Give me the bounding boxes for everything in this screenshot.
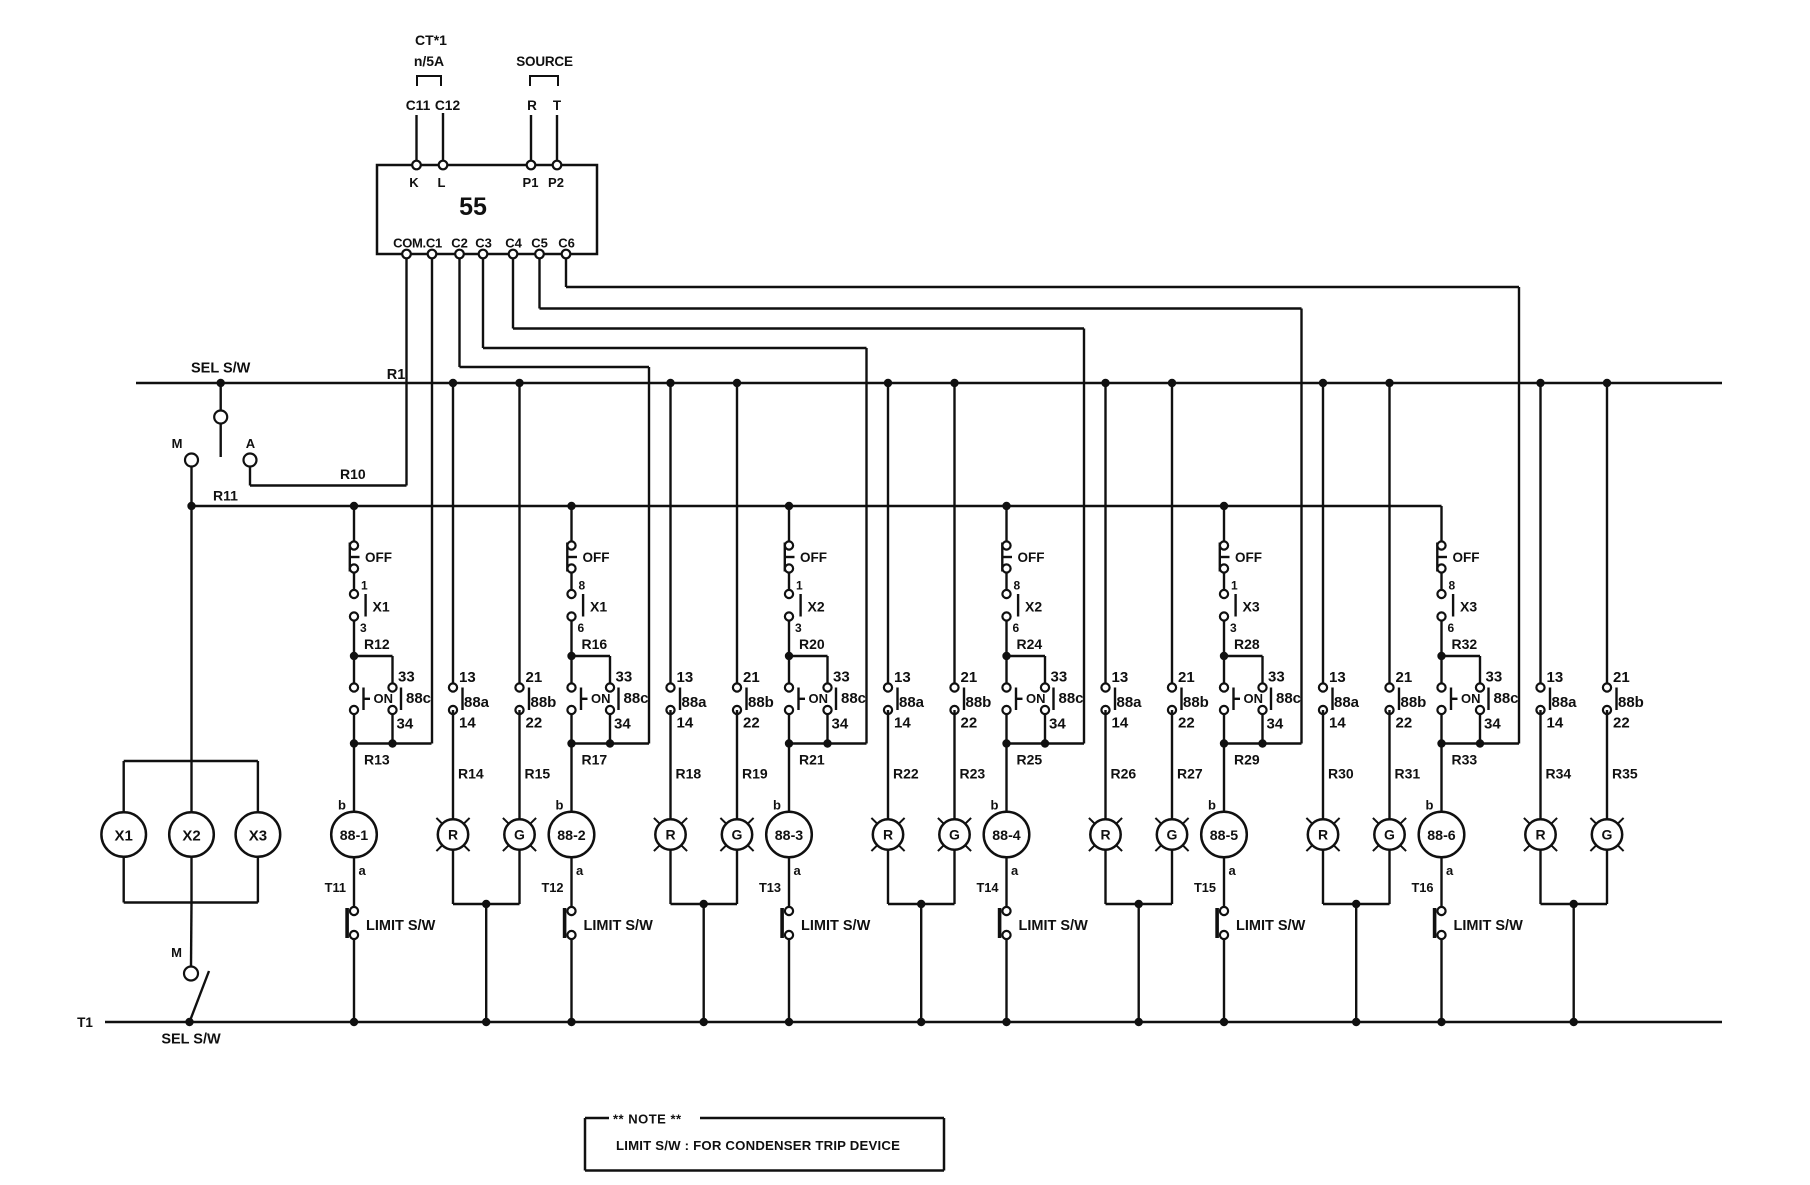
svg-text:88c: 88c bbox=[1276, 690, 1301, 707]
wire coil to limit switch (group 3) bbox=[788, 857, 790, 907]
svg-text:13: 13 bbox=[1547, 669, 1564, 686]
svg-text:LIMIT S/W: LIMIT S/W bbox=[1236, 918, 1306, 934]
svg-text:33: 33 bbox=[833, 669, 850, 686]
svg-text:LIMIT S/W: LIMIT S/W bbox=[1019, 918, 1089, 934]
parallel branch wires (group 2) bbox=[572, 656, 650, 744]
wire OFF to X1 contact bbox=[353, 573, 355, 591]
label R21 bbox=[799, 752, 825, 768]
SOURCE bracket bbox=[530, 76, 558, 86]
wire coil to limit switch (group 2) bbox=[570, 857, 572, 907]
lamp G R15 bbox=[503, 818, 536, 851]
svg-text:X1: X1 bbox=[115, 828, 133, 845]
terminal b (group 1) bbox=[338, 798, 346, 813]
wire R to P1 bbox=[530, 115, 532, 161]
terminal a (group 5) bbox=[1229, 863, 1237, 878]
wire 22 to lamp G (group 3) bbox=[953, 710, 955, 820]
wire M down bbox=[190, 467, 192, 762]
wire OFF to X2 contact bbox=[788, 573, 790, 591]
svg-text:22: 22 bbox=[1178, 715, 1195, 732]
svg-text:R30: R30 bbox=[1328, 766, 1354, 782]
svg-text:R: R bbox=[527, 98, 537, 113]
svg-text:R22: R22 bbox=[893, 766, 919, 782]
label T16 bbox=[1411, 880, 1433, 895]
label R30 bbox=[1328, 766, 1354, 782]
svg-text:88c: 88c bbox=[624, 690, 649, 707]
wire lamps R G join to T1 (group 1) bbox=[453, 850, 520, 1026]
svg-text:88c: 88c bbox=[1059, 690, 1084, 707]
svg-text:R26: R26 bbox=[1111, 766, 1137, 782]
label R20 bbox=[799, 636, 825, 652]
pushbutton ON (group 3) bbox=[785, 683, 828, 714]
wire OFF to X3 contact bbox=[1440, 573, 1442, 591]
label R16 bbox=[582, 636, 608, 652]
wire to node R32 bbox=[1440, 621, 1442, 657]
pushbutton ON (group 4) bbox=[1002, 683, 1045, 714]
svg-text:14: 14 bbox=[894, 715, 911, 732]
svg-text:R15: R15 bbox=[525, 766, 551, 782]
wire C6 routing bbox=[566, 258, 1519, 744]
svg-text:33: 33 bbox=[616, 669, 633, 686]
svg-text:22: 22 bbox=[526, 715, 543, 732]
svg-text:a: a bbox=[359, 863, 367, 878]
label R34 bbox=[1546, 766, 1572, 782]
svg-text:M: M bbox=[172, 436, 183, 451]
contact 88b 21-22 (R27) bbox=[1168, 379, 1209, 732]
wire to node R12 bbox=[353, 621, 355, 657]
svg-text:X2: X2 bbox=[182, 828, 200, 845]
contact 88a 13-14 (R26) bbox=[1101, 379, 1142, 732]
svg-text:T11: T11 bbox=[325, 880, 346, 895]
terminal C1 bbox=[428, 250, 437, 259]
wire R10 bbox=[250, 467, 407, 486]
contact 88b 21-22 (R35) bbox=[1603, 379, 1644, 732]
terminal P1 bbox=[523, 161, 539, 190]
svg-text:R16: R16 bbox=[582, 636, 608, 652]
label R10 bbox=[340, 466, 366, 482]
wire C3 routing bbox=[483, 258, 867, 744]
contact X2 1-3 (group 3) bbox=[785, 579, 825, 636]
wire C5 routing bbox=[540, 258, 1302, 744]
wire to coil 88-1 bbox=[353, 744, 355, 813]
node R24 bbox=[1002, 652, 1010, 660]
wire limit switch to T1 (group 4) bbox=[1002, 939, 1010, 1026]
label R26 bbox=[1111, 766, 1137, 782]
svg-text:C12: C12 bbox=[435, 98, 461, 113]
svg-text:88b: 88b bbox=[748, 694, 774, 711]
svg-text:33: 33 bbox=[1268, 669, 1285, 686]
svg-text:21: 21 bbox=[1613, 669, 1630, 686]
contact 88a 13-14 (R18) bbox=[666, 379, 707, 732]
wire 14 to lamp R (group 1) bbox=[452, 710, 454, 820]
lamp X1 bbox=[101, 812, 146, 857]
wire lamps R G join to T1 (group 2) bbox=[671, 850, 738, 1026]
svg-text:R29: R29 bbox=[1234, 752, 1260, 768]
wire 14 to lamp R (group 2) bbox=[669, 710, 671, 820]
wire coil to limit switch (group 4) bbox=[1005, 857, 1007, 907]
svg-text:34: 34 bbox=[1484, 716, 1501, 733]
svg-text:R10: R10 bbox=[340, 466, 366, 482]
svg-text:R21: R21 bbox=[799, 752, 825, 768]
svg-text:88b: 88b bbox=[1183, 694, 1209, 711]
wire limit switch to T1 (group 3) bbox=[785, 939, 793, 1026]
wire COM down bbox=[405, 258, 407, 486]
svg-text:SOURCE: SOURCE bbox=[516, 54, 573, 69]
contact 88c 33-34 (group 4) bbox=[1041, 669, 1084, 733]
svg-text:OFF: OFF bbox=[1453, 550, 1480, 565]
label R27 bbox=[1177, 766, 1203, 782]
svg-text:R34: R34 bbox=[1546, 766, 1572, 782]
svg-text:X3: X3 bbox=[249, 828, 267, 845]
svg-text:13: 13 bbox=[1112, 669, 1129, 686]
relay coil 88-1 bbox=[331, 812, 377, 858]
svg-text:R27: R27 bbox=[1177, 766, 1203, 782]
wire to coil 88-6 bbox=[1440, 744, 1442, 813]
label R35 bbox=[1612, 766, 1638, 782]
svg-text:88b: 88b bbox=[966, 694, 992, 711]
svg-text:OFF: OFF bbox=[800, 550, 827, 565]
svg-text:8: 8 bbox=[579, 579, 586, 593]
lamp G R23 bbox=[938, 818, 971, 851]
lamp R R22 bbox=[871, 818, 904, 851]
label R33 bbox=[1452, 752, 1478, 768]
svg-text:b: b bbox=[556, 798, 564, 813]
pushbutton ON (group 6) bbox=[1437, 683, 1480, 714]
contact X3 1-3 (group 5) bbox=[1220, 579, 1260, 636]
label CT*1 bbox=[415, 32, 447, 48]
lamp X3 bbox=[236, 812, 281, 857]
svg-text:34: 34 bbox=[832, 716, 849, 733]
svg-text:1: 1 bbox=[796, 579, 803, 593]
svg-text:8: 8 bbox=[1449, 579, 1456, 593]
svg-text:22: 22 bbox=[961, 715, 978, 732]
svg-text:X3: X3 bbox=[1460, 599, 1477, 615]
pushbutton OFF (group 6) bbox=[1437, 541, 1479, 572]
svg-text:CT*1: CT*1 bbox=[415, 32, 447, 48]
pushbutton OFF (group 1) bbox=[350, 541, 392, 572]
contact M (top selector) bbox=[172, 436, 198, 467]
svg-text:C2: C2 bbox=[451, 236, 468, 251]
bus R1 bbox=[136, 382, 1722, 385]
terminal P2 bbox=[548, 161, 564, 190]
svg-text:b: b bbox=[1426, 798, 1434, 813]
lamp G R35 bbox=[1590, 818, 1623, 851]
svg-text:T: T bbox=[553, 98, 562, 113]
label R24 bbox=[1017, 636, 1043, 652]
svg-text:R19: R19 bbox=[742, 766, 768, 782]
terminal b (group 5) bbox=[1208, 798, 1216, 813]
node R25 bbox=[1002, 739, 1049, 747]
svg-text:a: a bbox=[1229, 863, 1237, 878]
svg-text:OFF: OFF bbox=[1235, 550, 1262, 565]
node R28 bbox=[1220, 652, 1228, 660]
contact 88a 13-14 (R34) bbox=[1536, 379, 1577, 732]
svg-text:SEL S/W: SEL S/W bbox=[191, 361, 251, 377]
svg-text:88a: 88a bbox=[1334, 694, 1360, 711]
wire coil to limit switch (group 1) bbox=[353, 857, 355, 907]
svg-text:33: 33 bbox=[1051, 669, 1068, 686]
svg-text:88-6: 88-6 bbox=[1427, 828, 1456, 844]
label T14 bbox=[976, 880, 999, 895]
label R13 bbox=[364, 752, 390, 768]
svg-text:R23: R23 bbox=[960, 766, 986, 782]
contact 88b 21-22 (R23) bbox=[950, 379, 991, 732]
contact 88b 21-22 (R31) bbox=[1385, 379, 1426, 732]
svg-text:88a: 88a bbox=[464, 694, 490, 711]
svg-text:14: 14 bbox=[1547, 715, 1564, 732]
wire lamps R G join to T1 (group 4) bbox=[1106, 850, 1173, 1026]
wire OFF to X2 contact bbox=[1005, 573, 1007, 591]
svg-text:ON: ON bbox=[374, 691, 394, 706]
svg-text:P2: P2 bbox=[548, 175, 564, 190]
lamp R R14 bbox=[436, 818, 469, 851]
label R15 bbox=[525, 766, 551, 782]
svg-text:ON: ON bbox=[1026, 691, 1046, 706]
wire 22 to lamp G (group 6) bbox=[1606, 710, 1608, 820]
wire limit switch to T1 (group 6) bbox=[1437, 939, 1445, 1026]
svg-text:T1: T1 bbox=[77, 1015, 93, 1030]
note box bbox=[585, 1112, 944, 1171]
terminal L bbox=[438, 161, 448, 190]
label R17 bbox=[582, 752, 608, 768]
wire to node R24 bbox=[1005, 621, 1007, 657]
terminal b (group 4) bbox=[991, 798, 999, 813]
svg-text:SEL S/W: SEL S/W bbox=[161, 1032, 221, 1048]
svg-text:13: 13 bbox=[1329, 669, 1346, 686]
svg-text:33: 33 bbox=[398, 669, 415, 686]
parallel branch wires (group 4) bbox=[1007, 656, 1085, 744]
svg-text:LIMIT S/W: LIMIT S/W bbox=[366, 918, 436, 934]
svg-text:6: 6 bbox=[578, 621, 585, 635]
svg-text:T16: T16 bbox=[1411, 880, 1433, 895]
svg-text:88a: 88a bbox=[899, 694, 925, 711]
svg-text:b: b bbox=[338, 798, 346, 813]
terminal b (group 3) bbox=[773, 798, 781, 813]
wire X2 to bottom selector M bbox=[190, 903, 193, 967]
svg-text:ON: ON bbox=[1461, 691, 1481, 706]
lamp G R19 bbox=[720, 818, 753, 851]
svg-text:b: b bbox=[1208, 798, 1216, 813]
svg-text:R: R bbox=[1318, 827, 1328, 843]
svg-text:G: G bbox=[514, 827, 525, 843]
svg-text:G: G bbox=[732, 827, 743, 843]
label R12 bbox=[364, 636, 390, 652]
node R21 bbox=[785, 739, 832, 747]
svg-text:R35: R35 bbox=[1612, 766, 1638, 782]
svg-text:OFF: OFF bbox=[1018, 550, 1045, 565]
limit switch LIMIT S/W (group 5) bbox=[1215, 907, 1305, 939]
label T12 bbox=[541, 880, 563, 895]
svg-text:LIMIT S/W : FOR CONDENSER TRIP: LIMIT S/W : FOR CONDENSER TRIP DEVICE bbox=[616, 1138, 900, 1153]
svg-text:ON: ON bbox=[1244, 691, 1264, 706]
node R29 bbox=[1220, 739, 1267, 747]
CT bracket bbox=[417, 76, 441, 86]
pushbutton ON (group 5) bbox=[1220, 683, 1263, 714]
svg-text:88b: 88b bbox=[1401, 694, 1427, 711]
node C12 bbox=[435, 98, 461, 113]
svg-text:C5: C5 bbox=[531, 236, 548, 251]
relay coil 88-2 bbox=[549, 812, 595, 858]
lamp G R31 bbox=[1373, 818, 1406, 851]
svg-text:X2: X2 bbox=[808, 599, 825, 615]
pushbutton OFF (group 2) bbox=[567, 541, 609, 572]
contact A (top selector) bbox=[244, 436, 257, 467]
svg-text:88-1: 88-1 bbox=[340, 828, 369, 844]
svg-text:1: 1 bbox=[1231, 579, 1238, 593]
svg-text:R1: R1 bbox=[387, 367, 406, 383]
wire limit switch to T1 (group 1) bbox=[350, 939, 358, 1026]
label R25 bbox=[1017, 752, 1043, 768]
wire bracket to lamps X1 X2 X3 bbox=[124, 761, 258, 903]
pushbutton ON (group 1) bbox=[350, 683, 393, 714]
svg-text:G: G bbox=[1602, 827, 1613, 843]
relay U-55 body bbox=[377, 165, 597, 254]
parallel branch wires (group 6) bbox=[1442, 656, 1520, 744]
svg-text:88-3: 88-3 bbox=[775, 828, 804, 844]
svg-text:34: 34 bbox=[397, 716, 414, 733]
svg-text:n/5A: n/5A bbox=[414, 53, 444, 69]
svg-text:13: 13 bbox=[894, 669, 911, 686]
node R17 bbox=[567, 739, 614, 747]
contact 88c 33-34 (group 2) bbox=[606, 669, 649, 733]
svg-text:a: a bbox=[1446, 863, 1454, 878]
node T (source) bbox=[553, 98, 562, 113]
contact 88a 13-14 (R30) bbox=[1319, 379, 1360, 732]
svg-text:LIMIT S/W: LIMIT S/W bbox=[801, 918, 871, 934]
lamp R R18 bbox=[654, 818, 687, 851]
lamp R R34 bbox=[1524, 818, 1557, 851]
parallel branch wires (group 1) bbox=[354, 656, 432, 744]
svg-text:88c: 88c bbox=[1494, 690, 1519, 707]
svg-text:22: 22 bbox=[1396, 715, 1413, 732]
terminal C4 bbox=[505, 236, 522, 259]
limit switch LIMIT S/W (group 6) bbox=[1433, 907, 1523, 939]
node R (source) bbox=[527, 98, 537, 113]
terminal a (group 4) bbox=[1011, 863, 1019, 878]
svg-text:G: G bbox=[949, 827, 960, 843]
pushbutton OFF (group 5) bbox=[1220, 541, 1262, 572]
relay coil 88-3 bbox=[766, 812, 812, 858]
wire 14 to lamp R (group 3) bbox=[887, 710, 889, 820]
contact X1 8-6 (group 2) bbox=[567, 579, 607, 636]
svg-text:LIMIT S/W: LIMIT S/W bbox=[1454, 918, 1524, 934]
bus T1 bbox=[105, 1021, 1722, 1024]
lamp X2 bbox=[169, 812, 214, 857]
bus R11 bbox=[187, 502, 1441, 510]
svg-text:a: a bbox=[794, 863, 802, 878]
svg-text:X1: X1 bbox=[590, 599, 607, 615]
svg-text:R: R bbox=[448, 827, 458, 843]
svg-text:R11: R11 bbox=[213, 488, 238, 504]
label T15 bbox=[1194, 880, 1216, 895]
node R12 bbox=[350, 652, 358, 660]
svg-text:** NOTE **: ** NOTE ** bbox=[613, 1112, 682, 1127]
wire 22 to lamp G (group 1) bbox=[518, 710, 520, 820]
svg-text:R12: R12 bbox=[364, 636, 390, 652]
svg-text:88-4: 88-4 bbox=[992, 828, 1021, 844]
node R33 bbox=[1437, 739, 1484, 747]
label SOURCE bbox=[516, 54, 573, 69]
svg-text:X3: X3 bbox=[1243, 599, 1260, 615]
svg-text:34: 34 bbox=[1049, 716, 1066, 733]
node R16 bbox=[567, 652, 575, 660]
parallel branch wires (group 3) bbox=[789, 656, 867, 744]
svg-text:88c: 88c bbox=[406, 690, 431, 707]
svg-text:34: 34 bbox=[1267, 716, 1284, 733]
label T1 bbox=[77, 1015, 93, 1030]
wire limit switch to T1 (group 5) bbox=[1220, 939, 1228, 1026]
svg-text:T13: T13 bbox=[759, 880, 781, 895]
svg-text:88a: 88a bbox=[1117, 694, 1143, 711]
wire lamps R G join to T1 (group 6) bbox=[1541, 850, 1608, 1026]
label R1 bbox=[387, 367, 406, 383]
svg-text:3: 3 bbox=[795, 621, 802, 635]
wire 22 to lamp G (group 5) bbox=[1388, 710, 1390, 820]
node R32 bbox=[1437, 652, 1445, 660]
svg-text:21: 21 bbox=[526, 669, 543, 686]
selector switch SEL S/W (bottom) arm bbox=[185, 971, 209, 1026]
contact 88c 33-34 (group 5) bbox=[1258, 669, 1301, 733]
label R19 bbox=[742, 766, 768, 782]
svg-text:3: 3 bbox=[360, 621, 367, 635]
svg-text:R24: R24 bbox=[1017, 636, 1043, 652]
svg-text:LIMIT S/W: LIMIT S/W bbox=[584, 918, 654, 934]
svg-text:34: 34 bbox=[614, 716, 631, 733]
terminal a (group 1) bbox=[359, 863, 367, 878]
label R18 bbox=[676, 766, 702, 782]
wire to node R16 bbox=[570, 621, 572, 657]
terminal a (group 6) bbox=[1446, 863, 1454, 878]
svg-text:21: 21 bbox=[961, 669, 978, 686]
svg-text:21: 21 bbox=[1396, 669, 1413, 686]
node R11 tap group 1 bbox=[350, 502, 358, 546]
label SEL S/W bottom bbox=[161, 1032, 221, 1048]
svg-text:R13: R13 bbox=[364, 752, 390, 768]
contact 88c 33-34 (group 6) bbox=[1476, 669, 1519, 733]
wire 22 to lamp G (group 2) bbox=[736, 710, 738, 820]
wire to coil 88-4 bbox=[1005, 744, 1007, 813]
svg-text:A: A bbox=[246, 436, 256, 451]
wire OFF to X1 contact bbox=[570, 573, 572, 591]
contact 88b 21-22 (R19) bbox=[733, 379, 774, 732]
svg-text:R32: R32 bbox=[1452, 636, 1478, 652]
wire C4 routing bbox=[513, 258, 1084, 744]
svg-text:R: R bbox=[665, 827, 675, 843]
svg-text:6: 6 bbox=[1013, 621, 1020, 635]
wire to coil 88-2 bbox=[570, 744, 572, 813]
wire C12 to L bbox=[442, 113, 444, 161]
label R14 bbox=[458, 766, 484, 782]
label R32 bbox=[1452, 636, 1478, 652]
node R11 tap group 5 bbox=[1220, 502, 1228, 546]
svg-text:ON: ON bbox=[809, 691, 829, 706]
relay coil 88-4 bbox=[984, 812, 1030, 858]
label R29 bbox=[1234, 752, 1260, 768]
svg-text:88a: 88a bbox=[682, 694, 708, 711]
wire coil to limit switch (group 5) bbox=[1223, 857, 1225, 907]
terminal C2 bbox=[451, 236, 468, 259]
svg-text:R33: R33 bbox=[1452, 752, 1478, 768]
svg-text:88b: 88b bbox=[1618, 694, 1644, 711]
node R11 tap group 3 bbox=[785, 502, 793, 546]
svg-text:88a: 88a bbox=[1552, 694, 1578, 711]
pushbutton OFF (group 3) bbox=[785, 541, 827, 572]
svg-text:14: 14 bbox=[459, 715, 476, 732]
contact 88b 21-22 (R15) bbox=[515, 379, 556, 732]
svg-text:C3: C3 bbox=[475, 236, 492, 251]
svg-text:R25: R25 bbox=[1017, 752, 1043, 768]
wire 14 to lamp R (group 5) bbox=[1322, 710, 1324, 820]
svg-text:13: 13 bbox=[459, 669, 476, 686]
